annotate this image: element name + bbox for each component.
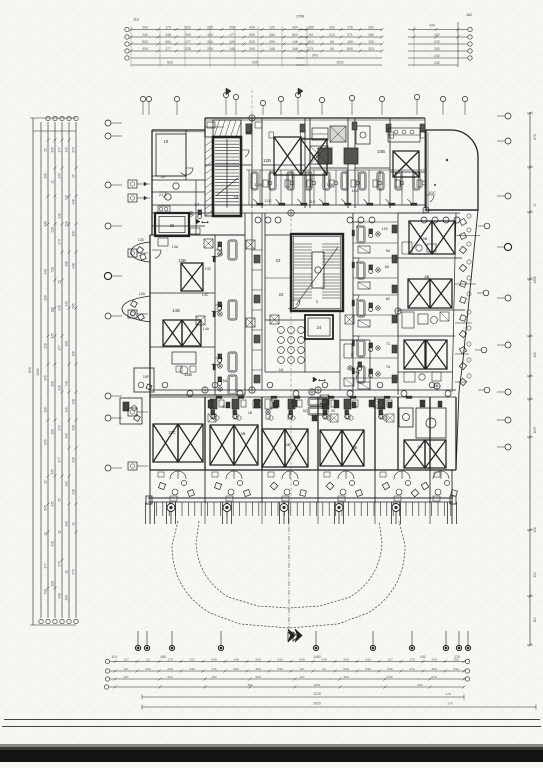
svg-text:242: 242 <box>434 40 440 44</box>
svg-text:448: 448 <box>44 221 48 227</box>
right balcony furniture <box>459 218 466 225</box>
left block partition walls <box>150 234 245 236</box>
svg-text:16: 16 <box>279 367 284 372</box>
svg-text:23: 23 <box>276 258 281 263</box>
svg-text:140: 140 <box>58 173 62 179</box>
svg-text:218: 218 <box>58 385 62 391</box>
upper band horizontal wall <box>205 164 252 166</box>
svg-text:540: 540 <box>211 657 216 661</box>
balcony band dividers <box>149 470 151 503</box>
svg-text:2225: 2225 <box>313 692 321 696</box>
left outer wall lower <box>149 235 151 470</box>
svg-text:12B: 12B <box>263 158 271 163</box>
svg-text:345: 345 <box>51 147 55 153</box>
svg-text:240: 240 <box>167 667 172 671</box>
svg-text:540: 540 <box>365 657 370 661</box>
upper corridor walls <box>152 204 426 206</box>
svg-text:523: 523 <box>292 33 298 37</box>
svg-text:177: 177 <box>58 345 62 351</box>
svg-text:203: 203 <box>189 657 194 661</box>
right grid bubble column <box>505 113 511 119</box>
room 24 double rectangle <box>305 315 333 339</box>
room 17 fixtures <box>189 212 193 216</box>
svg-text:434: 434 <box>207 40 213 44</box>
svg-text:209: 209 <box>249 47 255 51</box>
svg-text:110: 110 <box>111 655 117 659</box>
stair core 1 door <box>241 150 249 157</box>
svg-text:◆▬◆: ◆▬◆ <box>201 220 209 224</box>
central small rooms along corridor <box>252 249 262 251</box>
svg-text:12: 12 <box>44 532 48 536</box>
svg-text:434: 434 <box>429 24 435 28</box>
lower band tub pair <box>308 398 328 406</box>
svg-text:468: 468 <box>160 655 166 659</box>
stair core 2 thick walls <box>291 234 343 311</box>
top-left door arcs <box>181 168 193 175</box>
right rooms column walls <box>352 213 354 395</box>
left dim tick marks <box>47 139 50 142</box>
driveway outer dashed arc <box>172 521 405 628</box>
svg-text:434: 434 <box>292 25 298 29</box>
lower band extra dark pods <box>208 400 213 408</box>
balcony furniture <box>158 482 165 489</box>
svg-text:345: 345 <box>51 333 55 339</box>
svg-text:523: 523 <box>142 40 148 44</box>
left wall tags with leaders <box>128 180 137 188</box>
lower band wardrobe hatches <box>208 414 216 422</box>
svg-text:242: 242 <box>142 25 148 29</box>
section cut dash line mid <box>290 213 292 234</box>
svg-text:345: 345 <box>44 439 48 445</box>
right balcony dividers <box>455 235 480 237</box>
svg-text:203: 203 <box>233 667 238 671</box>
svg-text:1460: 1460 <box>313 655 321 659</box>
svg-text:523: 523 <box>167 61 173 65</box>
svg-text:176: 176 <box>211 667 216 671</box>
svg-text:540: 540 <box>343 667 348 671</box>
svg-text:108: 108 <box>44 407 48 413</box>
bottom dim line 6 total <box>142 706 536 708</box>
svg-text:242: 242 <box>142 33 148 37</box>
svg-text:25: 25 <box>170 223 175 228</box>
svg-text:127: 127 <box>123 667 128 671</box>
kitchenette shafts room 11 <box>312 128 328 140</box>
terrace door and dots <box>426 195 434 202</box>
svg-text:432: 432 <box>420 655 426 659</box>
left dim extra horizontal tick line <box>33 130 76 132</box>
svg-text:4B: 4B <box>286 442 291 447</box>
svg-text:11C: 11C <box>308 199 315 204</box>
svg-text:17: 17 <box>195 202 200 207</box>
svg-text:345: 345 <box>51 501 55 507</box>
svg-text:540: 540 <box>343 657 348 661</box>
svg-text:108: 108 <box>65 261 69 267</box>
balcony bulge 14D ellipse <box>122 296 150 322</box>
svg-text:448: 448 <box>44 269 48 275</box>
svg-text:176: 176 <box>409 667 414 671</box>
corridor extra tags lower <box>162 382 168 388</box>
left block door arcs <box>212 250 223 257</box>
svg-text:108: 108 <box>44 295 48 301</box>
top-left block interior walls <box>185 130 187 180</box>
svg-text:162: 162 <box>466 13 472 17</box>
svg-text:540: 540 <box>255 657 260 661</box>
svg-text:177: 177 <box>185 40 191 44</box>
svg-text:225: 225 <box>207 25 213 29</box>
svg-text:148: 148 <box>233 657 238 661</box>
svg-text:216: 216 <box>44 343 48 349</box>
svg-text:4C: 4C <box>331 409 336 413</box>
bottom band extra fixtures <box>215 416 219 420</box>
svg-text:13A: 13A <box>172 245 179 249</box>
svg-text:218: 218 <box>72 457 76 463</box>
svg-text:12: 12 <box>51 180 55 184</box>
svg-text:148: 148 <box>269 47 275 51</box>
svg-text:718: 718 <box>65 381 69 387</box>
svg-text:94: 94 <box>309 33 313 37</box>
svg-text:448: 448 <box>72 199 76 205</box>
room 9B walls and beds <box>398 212 460 214</box>
balustrade posts <box>167 504 175 512</box>
svg-text:540: 540 <box>387 667 392 671</box>
svg-text:12: 12 <box>146 657 150 661</box>
left dimension vertical lines <box>40 122 42 618</box>
svg-text:273: 273 <box>72 569 76 575</box>
svg-text:505: 505 <box>252 61 258 65</box>
balustrade tick hatching <box>149 502 151 516</box>
room 2 fixtures <box>344 344 352 358</box>
svg-text:1391: 1391 <box>314 683 321 687</box>
lower band partitions <box>204 397 206 470</box>
central block interior walls rooms 16 and 2 <box>265 319 305 321</box>
svg-text:418: 418 <box>51 541 55 547</box>
svg-text:127: 127 <box>299 675 304 679</box>
left dim top bubbles <box>46 116 50 120</box>
room 8B walls and beds <box>398 309 465 311</box>
svg-text:273: 273 <box>58 425 62 431</box>
room 7A living furniture <box>404 372 415 382</box>
room 10B bed <box>393 151 419 177</box>
svg-text:523: 523 <box>185 25 191 29</box>
svg-text:14C: 14C <box>202 293 209 297</box>
right column fixtures <box>357 226 365 243</box>
building outer wall top-left block <box>152 129 205 131</box>
svg-text:12: 12 <box>58 530 62 534</box>
center chevron symbol <box>288 629 295 642</box>
svg-text:133: 133 <box>368 40 374 44</box>
bottom chevron marker <box>288 632 293 641</box>
svg-text:9A: 9A <box>386 249 391 253</box>
svg-text:273: 273 <box>58 239 62 245</box>
svg-text:670: 670 <box>533 134 537 140</box>
balcony french doors <box>170 471 178 479</box>
svg-text:25: 25 <box>58 280 62 284</box>
room 11B dark shaft <box>344 148 358 164</box>
center dash-dot line <box>288 500 290 628</box>
lower band bath pods <box>210 399 217 409</box>
left column bathrooms 13C 14C 15D 15A <box>228 240 237 260</box>
left grid bubble column <box>105 120 111 126</box>
svg-text:434: 434 <box>249 25 255 29</box>
svg-text:24: 24 <box>317 325 322 330</box>
svg-text:15F: 15F <box>143 375 150 379</box>
svg-text:540: 540 <box>453 667 458 671</box>
svg-text:180: 180 <box>368 33 374 37</box>
stair core 1 treads <box>215 140 239 142</box>
svg-text:140: 140 <box>533 527 537 533</box>
svg-text:18: 18 <box>234 195 239 200</box>
svg-text:14A: 14A <box>203 327 210 331</box>
balustrade end posts <box>146 496 152 504</box>
svg-text:160: 160 <box>347 40 353 44</box>
svg-text:543: 543 <box>312 54 318 58</box>
svg-text:242: 242 <box>329 25 335 29</box>
svg-text:148: 148 <box>165 33 171 37</box>
right column door arcs <box>353 222 359 227</box>
svg-text:240: 240 <box>321 657 326 661</box>
svg-text:946: 946 <box>255 675 260 679</box>
svg-text:94: 94 <box>330 40 334 44</box>
bottom dim left bubbles <box>105 659 109 663</box>
svg-text:540: 540 <box>347 47 353 51</box>
room 13B door <box>152 250 161 259</box>
svg-text:242: 242 <box>434 61 440 65</box>
svg-text:434: 434 <box>167 675 172 679</box>
small box above room 25 <box>158 206 170 212</box>
stair core 2 interior treads <box>294 243 312 245</box>
svg-text:160: 160 <box>431 667 436 671</box>
svg-text:718: 718 <box>51 267 55 273</box>
right overall dimension line <box>529 113 531 645</box>
room 15F small <box>134 368 154 392</box>
svg-text:127: 127 <box>123 657 128 661</box>
svg-text:400: 400 <box>533 352 537 358</box>
svg-text:209: 209 <box>249 33 255 37</box>
svg-text:540: 540 <box>277 667 282 671</box>
svg-text:10C: 10C <box>428 190 435 195</box>
kitchen counters top rooms <box>205 126 224 128</box>
misc fixture clusters upper band <box>263 180 268 187</box>
svg-text:12C: 12C <box>264 198 271 203</box>
svg-text:209: 209 <box>269 40 275 44</box>
svg-text:209: 209 <box>185 33 191 37</box>
section cut dash line upper <box>251 90 253 213</box>
svg-text:176: 176 <box>409 657 414 661</box>
left lower small room <box>120 398 142 424</box>
svg-text:176: 176 <box>347 25 353 29</box>
scan artifact black band <box>0 744 543 749</box>
svg-text:523: 523 <box>249 40 255 44</box>
balustrade joist clusters <box>145 502 147 524</box>
wardrobe X-squares <box>196 316 205 325</box>
svg-text:345: 345 <box>51 469 55 475</box>
svg-text:3B: 3B <box>241 431 246 436</box>
svg-text:14D: 14D <box>139 292 146 296</box>
svg-text:108: 108 <box>51 307 55 313</box>
svg-text:1B: 1B <box>248 411 253 415</box>
top grid pin row above plan <box>140 96 145 101</box>
top dim group A tick marks <box>130 28 133 31</box>
svg-text:25: 25 <box>44 148 48 152</box>
svg-text:434: 434 <box>165 40 171 44</box>
upper band partitions <box>251 118 253 208</box>
upper corridor tag row <box>255 217 261 223</box>
svg-text:273: 273 <box>58 561 62 567</box>
svg-text:127: 127 <box>299 667 304 671</box>
column grid crossed circles <box>249 115 255 121</box>
svg-text:7A: 7A <box>386 365 391 369</box>
svg-text:240: 240 <box>277 657 282 661</box>
svg-text:312: 312 <box>533 572 537 578</box>
lower band bottom wall <box>150 469 456 471</box>
upper band bathroom partitions <box>248 170 250 205</box>
svg-text:108: 108 <box>72 351 76 357</box>
stair core 1 thick walls <box>213 137 241 216</box>
svg-text:177: 177 <box>58 457 62 463</box>
shaft left of stair core 1 <box>205 137 213 216</box>
svg-text:218: 218 <box>58 213 62 219</box>
svg-text:108: 108 <box>65 341 69 347</box>
svg-text:1706: 1706 <box>296 15 304 19</box>
svg-text:19C: 19C <box>382 227 389 231</box>
bottom grid pin row <box>137 631 139 645</box>
svg-text:148: 148 <box>292 47 298 51</box>
room 20 walls <box>152 179 205 181</box>
svg-text:242: 242 <box>434 47 440 51</box>
svg-text:12: 12 <box>72 522 76 526</box>
svg-text:15A: 15A <box>221 379 228 383</box>
svg-text:448: 448 <box>72 263 76 269</box>
svg-text:225: 225 <box>185 47 191 51</box>
top dim group A extension lines <box>130 26 132 67</box>
svg-text:1037: 1037 <box>533 426 537 433</box>
svg-text:345: 345 <box>72 303 76 309</box>
svg-text:94: 94 <box>330 47 334 51</box>
svg-text:8B: 8B <box>425 274 430 279</box>
svg-text:216: 216 <box>65 221 69 227</box>
balcony bulge 13D <box>131 242 150 262</box>
svg-text:176: 176 <box>167 657 172 661</box>
svg-text:240: 240 <box>145 667 150 671</box>
svg-text:177: 177 <box>165 47 171 51</box>
svg-text:1: 1 <box>316 299 319 304</box>
unit divider drop lines <box>149 470 151 524</box>
room 9B living furniture <box>402 242 412 254</box>
svg-text:434: 434 <box>269 33 275 37</box>
svg-text:15B: 15B <box>184 372 192 377</box>
svg-text:2929: 2929 <box>313 701 321 705</box>
balcony band planters <box>158 472 164 477</box>
svg-text:127: 127 <box>387 657 392 661</box>
svg-text:120: 120 <box>207 33 213 37</box>
upper band door arcs <box>251 199 257 205</box>
right lower outer wall <box>456 392 459 470</box>
svg-text:5C: 5C <box>303 409 308 413</box>
svg-text:808: 808 <box>28 367 32 373</box>
svg-text:8C: 8C <box>386 297 391 301</box>
svg-text:216: 216 <box>72 489 76 495</box>
room 19 inner walls <box>156 134 186 176</box>
right balcony inner rail <box>452 213 456 392</box>
svg-text:9B: 9B <box>423 236 428 241</box>
central corridor vertical walls <box>251 213 253 235</box>
service sign near room 25 <box>196 219 200 224</box>
driveway inner dashed arc <box>196 521 382 608</box>
svg-text:120: 120 <box>269 25 275 29</box>
svg-text:108: 108 <box>44 173 48 179</box>
svg-text:718: 718 <box>44 589 48 595</box>
svg-text:313: 313 <box>329 33 335 37</box>
svg-text:345: 345 <box>44 505 48 511</box>
top dim group C right bubble column <box>468 27 472 31</box>
svg-text:177: 177 <box>44 563 48 569</box>
top dim group A left bubble column <box>125 27 129 31</box>
terrace bottom wall <box>426 209 478 211</box>
stair core 2 extra treads <box>294 273 312 275</box>
svg-text:364: 364 <box>247 683 252 687</box>
svg-text:209: 209 <box>229 25 235 29</box>
svg-text:108: 108 <box>51 581 55 587</box>
right edge tag circles <box>484 223 490 229</box>
room 25 dark frame <box>155 213 189 236</box>
svg-text:8A: 8A <box>385 265 390 269</box>
svg-text:108: 108 <box>51 429 55 435</box>
svg-text:115: 115 <box>533 617 537 622</box>
service sign central <box>313 377 317 382</box>
svg-text:313: 313 <box>368 47 374 51</box>
bottom dim line 5 <box>142 696 464 698</box>
survey flag marker top <box>226 88 231 95</box>
left dim bottom bubbles <box>39 619 43 623</box>
svg-text:12: 12 <box>322 667 326 671</box>
room 6B sauna <box>399 408 413 427</box>
svg-text:13D: 13D <box>138 238 145 242</box>
svg-text:1532: 1532 <box>336 61 344 65</box>
svg-text:203: 203 <box>417 683 422 687</box>
vestibule above stair core 1 hatch <box>213 120 241 137</box>
svg-text:47: 47 <box>533 203 537 207</box>
svg-text:177: 177 <box>58 147 62 153</box>
svg-text:148: 148 <box>229 47 235 51</box>
svg-text:113: 113 <box>133 18 139 22</box>
svg-text:120: 120 <box>229 40 235 44</box>
stair core 2 diagonal arrow <box>296 247 338 305</box>
svg-text:19: 19 <box>164 139 169 144</box>
svg-text:176: 176 <box>447 701 452 705</box>
svg-text:140: 140 <box>65 407 69 413</box>
svg-text:160: 160 <box>255 667 260 671</box>
stair core 2 door opening <box>288 300 300 309</box>
top dim group B ticks and numbers <box>299 28 302 31</box>
top dimension block group A (left) <box>131 29 307 31</box>
right envelope slanted balcony edge <box>459 210 478 392</box>
svg-text:434: 434 <box>211 675 216 679</box>
bottom dim ticks and numbers <box>114 660 117 663</box>
svg-text:2006: 2006 <box>36 368 40 375</box>
svg-text:434: 434 <box>142 47 148 51</box>
svg-text:448: 448 <box>58 593 62 599</box>
svg-text:240: 240 <box>431 657 436 661</box>
rooms 23 and 22 <box>265 234 291 236</box>
lower corridor door tags <box>187 391 193 397</box>
room 10B kitchen row <box>388 128 420 142</box>
svg-text:180: 180 <box>308 25 314 29</box>
svg-text:313: 313 <box>308 40 314 44</box>
svg-text:108: 108 <box>51 381 55 387</box>
svg-text:242: 242 <box>368 25 374 29</box>
svg-text:14B: 14B <box>172 308 180 313</box>
upper band small dark closets <box>246 124 251 132</box>
